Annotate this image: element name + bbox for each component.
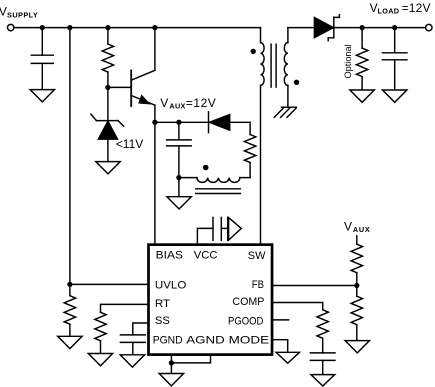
svg-text:UVLO: UVLO: [155, 280, 187, 292]
svg-text:RT: RT: [155, 298, 170, 310]
svg-text:VCC: VCC: [194, 249, 218, 261]
svg-text:AGND: AGND: [186, 334, 224, 346]
svg-text:=12V: =12V: [186, 96, 217, 110]
svg-text:V: V: [344, 219, 352, 233]
svg-text:Optional: Optional: [343, 44, 353, 78]
svg-text:AUX: AUX: [353, 225, 371, 234]
svg-text:AUX: AUX: [169, 101, 185, 110]
svg-text:V: V: [160, 96, 168, 110]
svg-text:BIAS: BIAS: [156, 249, 184, 261]
svg-text:V: V: [370, 1, 378, 15]
svg-text:SUPPLY: SUPPLY: [7, 11, 38, 20]
svg-text:SW: SW: [248, 250, 266, 262]
svg-text:FB: FB: [252, 279, 264, 291]
svg-text:PGOOD: PGOOD: [228, 315, 263, 327]
svg-text:SS: SS: [155, 315, 170, 327]
svg-text:=12V: =12V: [402, 1, 431, 15]
svg-text:MODE: MODE: [229, 334, 270, 346]
svg-text:LOAD: LOAD: [378, 7, 400, 16]
svg-text:COMP: COMP: [232, 296, 264, 308]
svg-text:V: V: [0, 5, 7, 19]
svg-text:PGND: PGND: [153, 334, 183, 346]
svg-text:<11V: <11V: [116, 137, 143, 151]
